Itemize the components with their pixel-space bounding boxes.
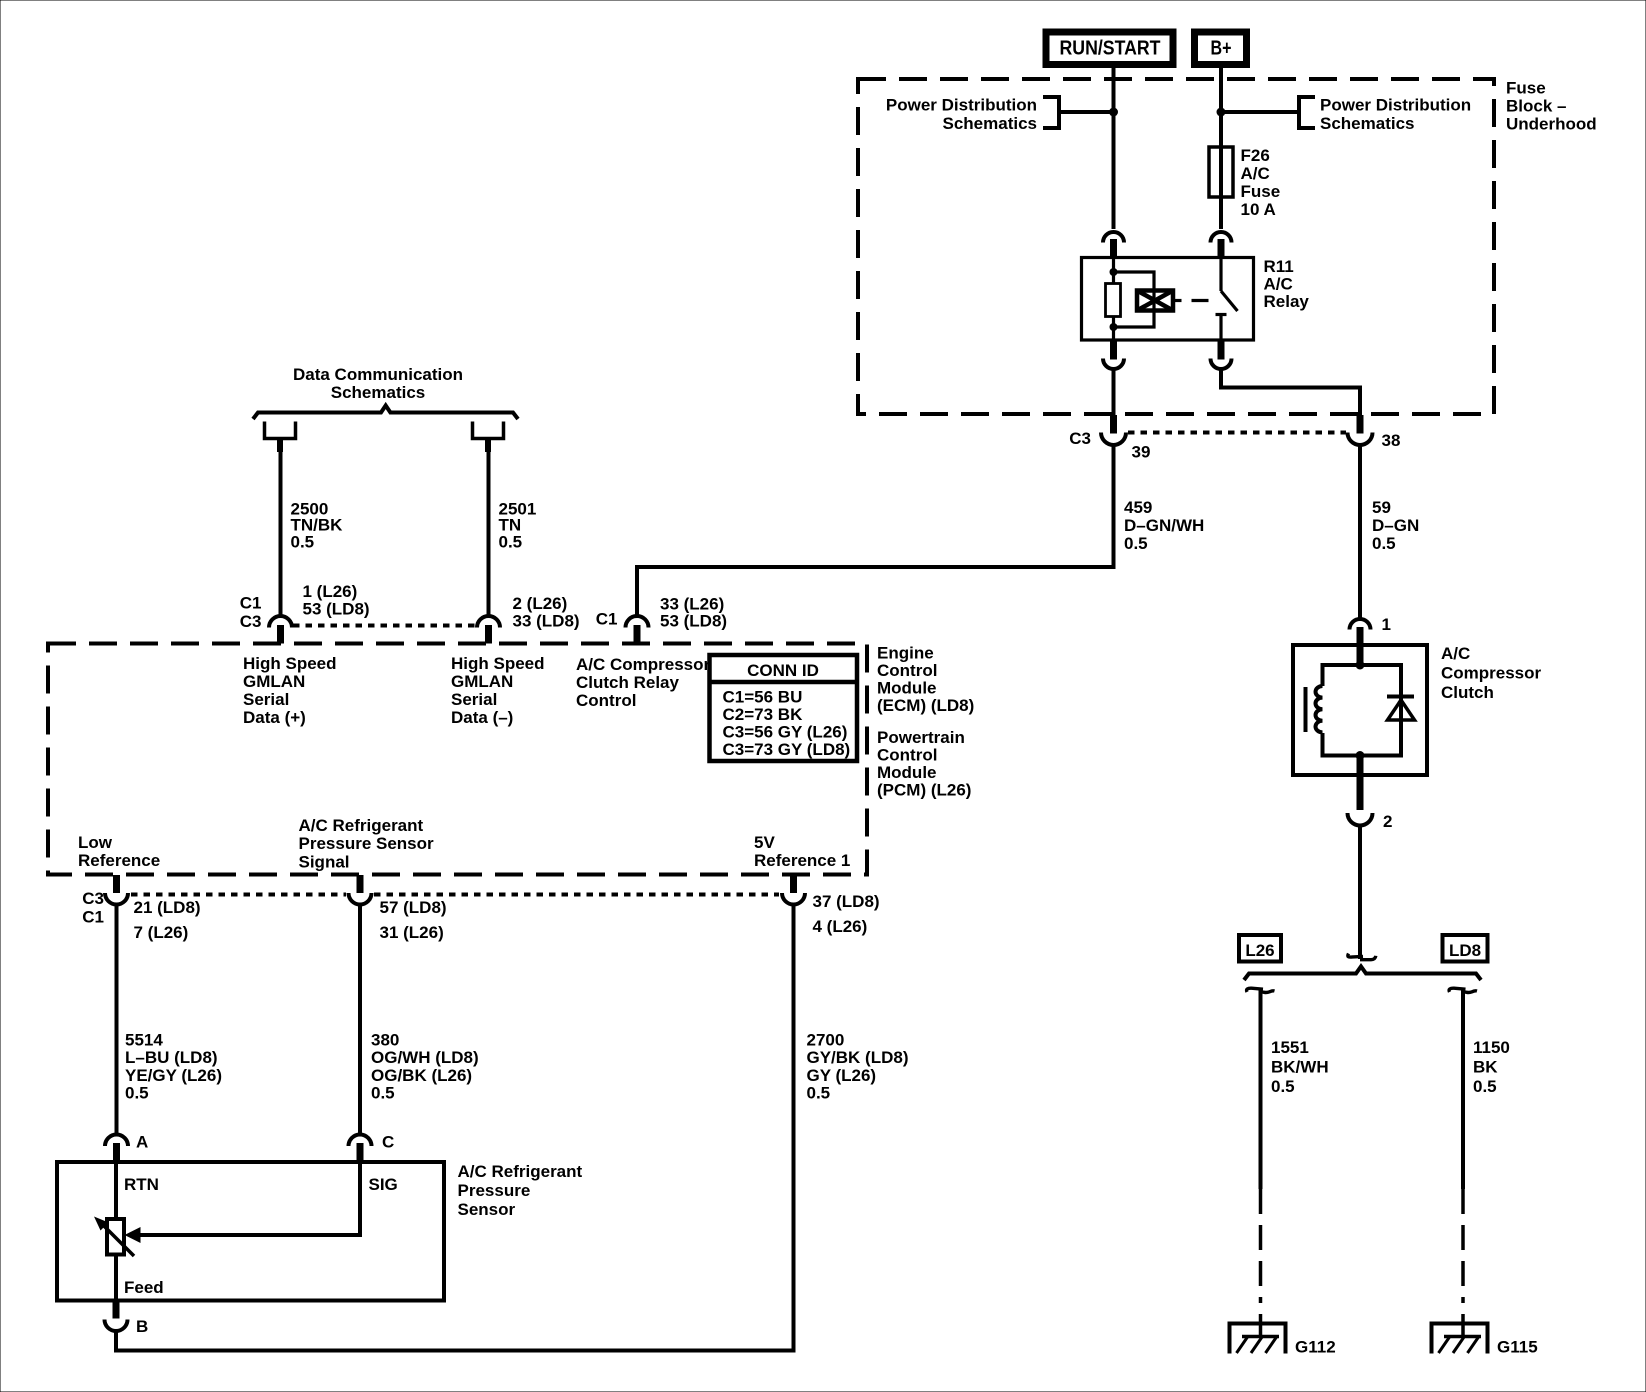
svg-text:0.5: 0.5 bbox=[125, 1084, 149, 1103]
connector female dome ECM pin 33/53 bbox=[626, 616, 649, 628]
connector bracket left power distribution bbox=[1043, 97, 1059, 128]
wire feed below potentiometer bbox=[114, 1255, 118, 1301]
connector female dome sensor pin A bbox=[105, 1135, 128, 1147]
label F26 A/C Fuse 10 A bbox=[1241, 146, 1281, 219]
svg-text:Pressure Sensor: Pressure Sensor bbox=[299, 834, 435, 853]
svg-text:5514: 5514 bbox=[125, 1031, 163, 1050]
wire to left power distribution bracket bbox=[1059, 110, 1114, 114]
svg-text:0.5: 0.5 bbox=[1271, 1077, 1295, 1096]
svg-text:380: 380 bbox=[371, 1031, 399, 1050]
connector bracket right power distribution bbox=[1299, 97, 1315, 128]
label High Speed GMLAN Serial Data (-) bbox=[451, 654, 545, 727]
label 459 D-GN/WH 0.5 bbox=[1124, 498, 1204, 553]
svg-text:Clutch Relay: Clutch Relay bbox=[576, 673, 680, 692]
svg-text:GMLAN: GMLAN bbox=[243, 672, 305, 691]
label 2700 GY/BK (LD8) GY (L26) 0.5 bbox=[807, 1031, 909, 1103]
svg-text:Control: Control bbox=[877, 661, 937, 680]
svg-text:GY (L26): GY (L26) bbox=[807, 1066, 877, 1085]
svg-text:10 A: 10 A bbox=[1241, 200, 1276, 219]
tag box LD8 bbox=[1443, 935, 1488, 962]
svg-text:Data (+): Data (+) bbox=[243, 708, 306, 727]
svg-text:C3: C3 bbox=[1069, 429, 1091, 448]
wire RTN to potentiometer bbox=[114, 1162, 118, 1219]
svg-text:A/C Compressor: A/C Compressor bbox=[576, 655, 711, 674]
svg-text:1 (L26): 1 (L26) bbox=[303, 582, 358, 601]
svg-text:59: 59 bbox=[1372, 498, 1391, 517]
connector female dome ECM pin 1/53 bbox=[269, 616, 292, 628]
svg-text:C3: C3 bbox=[82, 889, 104, 908]
label Power Distribution Schematics left bbox=[886, 96, 1037, 134]
wire RUN/START vertical bbox=[1112, 68, 1116, 229]
pin ECM 5V reference bbox=[790, 875, 797, 893]
svg-text:7 (L26): 7 (L26) bbox=[134, 923, 189, 942]
svg-text:0.5: 0.5 bbox=[499, 533, 523, 552]
svg-text:A/C: A/C bbox=[1264, 275, 1293, 294]
pin B below sensor bbox=[113, 1301, 120, 1319]
svg-text:Module: Module bbox=[877, 679, 937, 698]
off-page connector bracket left bbox=[265, 422, 296, 439]
svg-text:A/C: A/C bbox=[1241, 164, 1270, 183]
connector female cup pin B bbox=[105, 1320, 128, 1332]
pin 2 below clutch bbox=[1357, 756, 1364, 811]
dotted connector row line C3/C1 bottom bbox=[131, 893, 346, 897]
svg-text:D–GN/WH: D–GN/WH bbox=[1124, 516, 1204, 535]
pin ECM low reference bbox=[113, 875, 120, 893]
wire 2700 bbox=[116, 904, 794, 1351]
label 5514 L-BU (LD8) YE/GY (L26) 0.5 bbox=[125, 1031, 222, 1103]
dotted connector row line C3 bbox=[1128, 431, 1346, 435]
svg-text:Clutch: Clutch bbox=[1441, 683, 1494, 702]
node junction on RUN/START wire bbox=[1109, 108, 1118, 117]
tag box L26 bbox=[1239, 935, 1281, 962]
connector female cup 5V reference bbox=[782, 893, 805, 905]
wire 1551 dashed to ground bbox=[1259, 1189, 1263, 1303]
connector female dome above relay pin 39 side bbox=[1103, 232, 1124, 243]
svg-text:(PCM) (L26): (PCM) (L26) bbox=[877, 781, 971, 800]
CONN ID table bbox=[710, 655, 858, 761]
label 21 (LD8) 7 (L26) bbox=[134, 898, 201, 942]
pin into ECM 33/53 bbox=[634, 625, 641, 644]
svg-text:Powertrain: Powertrain bbox=[877, 728, 965, 747]
svg-text:GMLAN: GMLAN bbox=[451, 672, 513, 691]
resistor relay coil bbox=[1106, 284, 1121, 317]
pin into relay left bbox=[1110, 239, 1117, 258]
connector female cup below relay left bbox=[1103, 359, 1124, 370]
svg-text:Pressure: Pressure bbox=[458, 1181, 531, 1200]
wire break squiggle center bbox=[1348, 954, 1363, 958]
svg-text:OG/BK (L26): OG/BK (L26) bbox=[371, 1066, 472, 1085]
relay coil feed wire bbox=[1112, 258, 1115, 284]
svg-text:C2=73 BK: C2=73 BK bbox=[723, 705, 804, 724]
svg-text:1: 1 bbox=[1382, 615, 1391, 634]
connector female cup C3 39 bbox=[1101, 433, 1126, 445]
svg-text:A/C: A/C bbox=[1441, 644, 1470, 663]
svg-text:Control: Control bbox=[877, 746, 937, 765]
pin below right bracket bbox=[485, 439, 491, 452]
A/C compressor clutch box bbox=[1293, 645, 1427, 775]
wire break squiggle left branch bbox=[1247, 988, 1263, 992]
clutch coil bumps bbox=[1316, 686, 1323, 732]
svg-text:459: 459 bbox=[1124, 498, 1152, 517]
fuse block underhood dashed box bbox=[858, 79, 1494, 414]
pin A into sensor bbox=[113, 1143, 120, 1162]
wire SIG to wiper bbox=[140, 1162, 360, 1235]
pin below left bracket bbox=[277, 439, 283, 452]
svg-text:31 (L26): 31 (L26) bbox=[380, 923, 444, 942]
svg-text:39: 39 bbox=[1132, 443, 1151, 462]
svg-text:Schematics: Schematics bbox=[943, 114, 1038, 133]
svg-text:C1: C1 bbox=[240, 594, 262, 613]
svg-text:D–GN: D–GN bbox=[1372, 516, 1419, 535]
svg-text:2 (L26): 2 (L26) bbox=[513, 594, 568, 613]
node relay coil bottom junction bbox=[1110, 323, 1118, 331]
wire 459 D-GN/WH bbox=[637, 445, 1114, 617]
clutch inner loop bbox=[1323, 665, 1361, 686]
label 1 (L26) 53 (LD8) bbox=[303, 582, 370, 619]
pin into ECM 1/53 bbox=[277, 625, 284, 644]
diode clutch suppression bbox=[1387, 697, 1415, 721]
label 1150 BK 0.5 bbox=[1473, 1038, 1510, 1096]
svg-text:Schematics: Schematics bbox=[1320, 114, 1415, 133]
label C1 C3 left bbox=[240, 594, 262, 632]
svg-text:2: 2 bbox=[1383, 812, 1392, 831]
label 2501 TN 0.5 bbox=[499, 500, 537, 552]
svg-text:Engine: Engine bbox=[877, 644, 934, 663]
wire from relay right cup down and over to pin 38 bbox=[1221, 369, 1360, 417]
power tag RUN/START bbox=[1046, 32, 1173, 65]
connector female cup pin 2 bbox=[1348, 813, 1373, 826]
pin below relay left bbox=[1110, 340, 1117, 360]
svg-text:Serial: Serial bbox=[243, 690, 289, 709]
svg-text:0.5: 0.5 bbox=[807, 1084, 831, 1103]
connector female dome clutch pin 1 bbox=[1350, 619, 1371, 630]
label C3 C1 bottom bbox=[82, 889, 104, 927]
wire from relay left cup to C3 connector bbox=[1112, 369, 1116, 417]
svg-text:Fuse: Fuse bbox=[1506, 79, 1546, 98]
wire break squiggle right branch bbox=[1449, 988, 1465, 992]
label Data Communication Schematics bbox=[293, 365, 463, 402]
svg-text:1150: 1150 bbox=[1473, 1038, 1510, 1057]
svg-text:Signal: Signal bbox=[299, 853, 350, 872]
svg-text:C1=56 BU: C1=56 BU bbox=[723, 688, 803, 707]
svg-text:33 (LD8): 33 (LD8) bbox=[513, 612, 580, 631]
connector female cup pressure signal bbox=[349, 893, 372, 905]
power tag B+ bbox=[1195, 32, 1247, 65]
svg-text:0.5: 0.5 bbox=[371, 1084, 395, 1103]
label Power Distribution Schematics right bbox=[1320, 96, 1471, 134]
pin into relay right bbox=[1218, 239, 1225, 258]
wire 1150 dashed to ground bbox=[1461, 1189, 1465, 1303]
svg-text:2700: 2700 bbox=[807, 1031, 845, 1050]
label High Speed GMLAN Serial Data (+) bbox=[243, 654, 337, 727]
wire 1551 solid bbox=[1259, 989, 1263, 1189]
label A/C Compressor Clutch bbox=[1441, 644, 1542, 702]
svg-text:G112: G112 bbox=[1295, 1338, 1336, 1357]
pin into ECM 2/33 bbox=[485, 625, 492, 644]
svg-text:Data (–): Data (–) bbox=[451, 708, 513, 727]
svg-text:Schematics: Schematics bbox=[331, 383, 426, 402]
potentiometer pressure sensor element bbox=[107, 1219, 124, 1255]
svg-text:Power Distribution: Power Distribution bbox=[1320, 96, 1471, 115]
svg-text:High Speed: High Speed bbox=[451, 654, 545, 673]
svg-text:21 (LD8): 21 (LD8) bbox=[134, 898, 201, 917]
node relay coil top junction bbox=[1110, 268, 1118, 276]
svg-text:BK: BK bbox=[1473, 1058, 1498, 1077]
svg-text:Data Communication: Data Communication bbox=[293, 365, 463, 384]
pin 1 into clutch bbox=[1357, 627, 1364, 663]
svg-text:Reference 1: Reference 1 bbox=[754, 851, 850, 870]
svg-text:Control: Control bbox=[576, 691, 636, 710]
svg-text:Serial: Serial bbox=[451, 690, 497, 709]
node junction on B+ wire bbox=[1217, 108, 1226, 117]
svg-text:LD8: LD8 bbox=[1449, 941, 1481, 960]
ground G112 bbox=[1230, 1324, 1286, 1354]
svg-text:L–BU (LD8): L–BU (LD8) bbox=[125, 1048, 218, 1067]
svg-text:F26: F26 bbox=[1241, 146, 1270, 165]
label 380 OG/WH (LD8) OG/BK (L26) 0.5 bbox=[371, 1031, 479, 1103]
svg-text:Power Distribution: Power Distribution bbox=[886, 96, 1037, 115]
svg-text:C: C bbox=[382, 1133, 394, 1152]
label 1551 BK/WH 0.5 bbox=[1271, 1038, 1329, 1096]
svg-text:5V: 5V bbox=[754, 833, 775, 852]
svg-text:R11: R11 bbox=[1264, 257, 1294, 276]
svg-text:C3=56 GY (L26): C3=56 GY (L26) bbox=[723, 723, 848, 742]
svg-text:C3: C3 bbox=[240, 612, 262, 631]
svg-text:Fuse: Fuse bbox=[1241, 182, 1281, 201]
svg-text:0.5: 0.5 bbox=[1124, 534, 1148, 553]
svg-text:0.5: 0.5 bbox=[291, 533, 315, 552]
svg-text:(ECM) (LD8): (ECM) (LD8) bbox=[877, 696, 974, 715]
label 2 (L26) 33 (LD8) bbox=[513, 594, 580, 631]
svg-text:53 (LD8): 53 (LD8) bbox=[660, 612, 727, 631]
clutch coil core bar bbox=[1304, 687, 1308, 732]
svg-text:YE/GY (L26): YE/GY (L26) bbox=[125, 1066, 222, 1085]
svg-text:Low: Low bbox=[78, 833, 113, 852]
svg-text:GY/BK (LD8): GY/BK (LD8) bbox=[807, 1048, 909, 1067]
potentiometer wiper arrow bbox=[94, 1217, 134, 1257]
label 57 (LD8) 31 (L26) bbox=[380, 898, 447, 942]
svg-text:G115: G115 bbox=[1497, 1338, 1538, 1357]
node clutch top junction bbox=[1356, 661, 1365, 670]
svg-text:B: B bbox=[136, 1317, 148, 1336]
svg-text:SIG: SIG bbox=[369, 1175, 398, 1194]
svg-text:0.5: 0.5 bbox=[1473, 1077, 1497, 1096]
pin C into sensor bbox=[357, 1143, 364, 1162]
svg-text:RTN: RTN bbox=[124, 1175, 159, 1194]
fuse F26 bbox=[1209, 147, 1233, 197]
wire to right power distribution bracket bbox=[1221, 110, 1299, 114]
wire relay coil bypass loop bbox=[1114, 272, 1155, 327]
svg-text:Sensor: Sensor bbox=[458, 1200, 516, 1219]
svg-text:37 (LD8): 37 (LD8) bbox=[813, 892, 880, 911]
svg-text:C3=73 GY (LD8): C3=73 GY (LD8) bbox=[723, 740, 851, 759]
svg-text:CONN ID: CONN ID bbox=[747, 661, 819, 680]
wire 380 bbox=[358, 904, 362, 1135]
label R11 A/C Relay bbox=[1264, 257, 1310, 311]
connector female dome above relay pin 38 side bbox=[1211, 232, 1232, 243]
wire 2501 bbox=[487, 452, 491, 616]
relay R11 box bbox=[1082, 258, 1254, 341]
A/C refrigerant pressure sensor box bbox=[57, 1162, 444, 1301]
label 59 D-GN 0.5 bbox=[1372, 498, 1419, 553]
off-page connector bracket right bbox=[473, 422, 504, 439]
wire B+ vertical bbox=[1219, 68, 1223, 229]
label Low Reference bbox=[78, 833, 160, 870]
svg-text:Module: Module bbox=[877, 763, 937, 782]
brace data communication bbox=[253, 406, 518, 420]
ground G115 bbox=[1432, 1324, 1488, 1354]
svg-text:OG/WH (LD8): OG/WH (LD8) bbox=[371, 1048, 479, 1067]
connector female dome ECM pin 2/33 bbox=[477, 616, 500, 628]
svg-text:53 (LD8): 53 (LD8) bbox=[303, 600, 370, 619]
svg-text:C1: C1 bbox=[82, 908, 104, 927]
arrowhead SIG wiper bbox=[125, 1227, 141, 1243]
wire 1150 solid bbox=[1461, 989, 1465, 1189]
svg-text:57 (LD8): 57 (LD8) bbox=[380, 898, 447, 917]
pin C3 39 bbox=[1110, 415, 1117, 434]
wire 2500 bbox=[279, 452, 283, 616]
connector female cup low reference bbox=[105, 893, 128, 905]
svg-text:1551: 1551 bbox=[1271, 1038, 1309, 1057]
wire 59 D-GN bbox=[1358, 445, 1362, 620]
label Fuse Block - Underhood bbox=[1506, 79, 1597, 134]
svg-text:Relay: Relay bbox=[1264, 292, 1310, 311]
label A/C Refrigerant Pressure Sensor Signal bbox=[299, 816, 435, 872]
svg-text:A/C Refrigerant: A/C Refrigerant bbox=[458, 1162, 583, 1181]
label 5V Reference 1 bbox=[754, 833, 850, 870]
connector female dome sensor pin C bbox=[349, 1135, 372, 1147]
svg-text:BK/WH: BK/WH bbox=[1271, 1058, 1329, 1077]
svg-text:Block –: Block – bbox=[1506, 97, 1566, 116]
label 37 (LD8) 4 (L26) bbox=[813, 892, 880, 936]
relay switch fixed contact from B+ bbox=[1219, 258, 1222, 291]
label Powertrain Control Module (PCM) (L26) bbox=[877, 728, 971, 800]
label A/C Refrigerant Pressure Sensor bbox=[458, 1162, 583, 1219]
label Engine Control Module (ECM) (LD8) bbox=[877, 644, 974, 716]
ECM/PCM dashed box bbox=[48, 644, 867, 875]
relay switch blade bbox=[1221, 291, 1238, 311]
label A/C Compressor Clutch Relay Control bbox=[576, 655, 711, 710]
svg-text:A/C Refrigerant: A/C Refrigerant bbox=[299, 816, 424, 835]
svg-text:4 (L26): 4 (L26) bbox=[813, 917, 868, 936]
pin below relay right bbox=[1218, 340, 1225, 360]
svg-text:Underhood: Underhood bbox=[1506, 115, 1597, 134]
svg-text:0.5: 0.5 bbox=[1372, 534, 1396, 553]
svg-text:Reference: Reference bbox=[78, 851, 160, 870]
pin ECM pressure signal bbox=[357, 875, 364, 893]
svg-text:38: 38 bbox=[1382, 431, 1401, 450]
svg-text:Compressor: Compressor bbox=[1441, 664, 1542, 683]
dotted connector row line C1/C3 bbox=[293, 624, 476, 628]
connector female cup below relay right bbox=[1211, 359, 1232, 370]
node clutch bottom junction bbox=[1356, 751, 1365, 760]
wire relay coil bottom bbox=[1112, 317, 1115, 341]
dashed actuator link bbox=[1173, 299, 1182, 302]
label 2500 TN/BK 0.5 bbox=[291, 500, 344, 552]
label 33 (L26) 53 (LD8) bbox=[660, 595, 727, 631]
wire 1551/1150 common bbox=[1358, 826, 1362, 960]
svg-text:RUN/START: RUN/START bbox=[1060, 38, 1161, 60]
relay switch lower contact bbox=[1216, 313, 1227, 316]
wire 5514 bbox=[115, 904, 119, 1135]
svg-text:C1: C1 bbox=[596, 610, 618, 629]
svg-text:B+: B+ bbox=[1211, 38, 1232, 60]
svg-text:Feed: Feed bbox=[124, 1278, 164, 1297]
svg-text:High Speed: High Speed bbox=[243, 654, 337, 673]
relay coil actuator box with X bbox=[1137, 291, 1173, 311]
brace engine split bbox=[1244, 967, 1481, 981]
svg-text:A: A bbox=[136, 1133, 148, 1152]
svg-text:L26: L26 bbox=[1245, 941, 1274, 960]
pin 38 bbox=[1357, 415, 1364, 434]
connector female cup 38 bbox=[1348, 433, 1373, 445]
